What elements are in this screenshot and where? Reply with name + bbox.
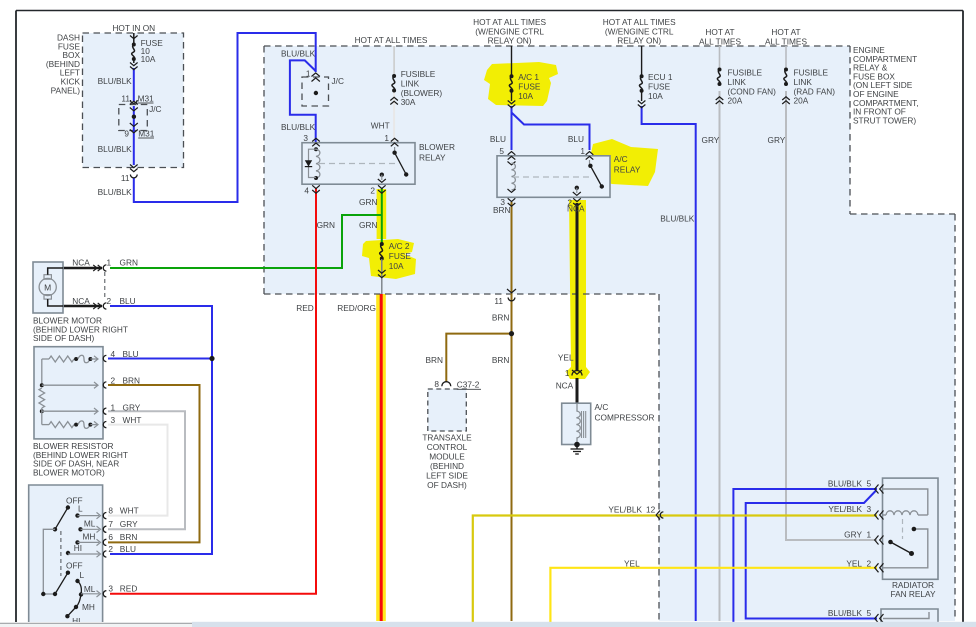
svg-text:J/C: J/C — [332, 76, 344, 86]
svg-text:30A: 30A — [401, 97, 416, 107]
radiator fan relay pin 1 — [875, 536, 884, 545]
svg-text:YEL: YEL — [846, 559, 862, 569]
condenser fan relay pin 5 — [875, 614, 884, 623]
svg-text:2: 2 — [108, 544, 113, 554]
connector 2 motor — [93, 296, 111, 309]
svg-text:3: 3 — [108, 583, 113, 593]
wire gray A/C 2 fuse tail — [381, 261, 383, 294]
svg-text:5: 5 — [867, 608, 872, 618]
svg-text:STRUT TOWER): STRUT TOWER) — [853, 115, 916, 125]
svg-text:BLU: BLU — [120, 296, 136, 306]
svg-text:SIDE OF DASH): SIDE OF DASH) — [33, 333, 95, 343]
svg-text:OFF: OFF — [66, 561, 83, 571]
svg-text:HI: HI — [74, 543, 82, 553]
svg-text:GRY: GRY — [123, 403, 141, 413]
junction connector J/C box (dash fuse box) — [119, 105, 148, 131]
radiator fan relay pin 3 — [875, 511, 884, 520]
highlight on A/C relay label — [591, 139, 658, 186]
svg-text:1: 1 — [107, 258, 112, 268]
label FUSE 10 10A — [141, 38, 164, 64]
svg-text:1: 1 — [580, 146, 585, 156]
label DASH FUSE BOX location — [46, 33, 81, 96]
svg-text:M: M — [44, 283, 51, 293]
blower resistor box — [34, 347, 103, 439]
A/C relay pin 2 — [567, 198, 580, 208]
label ENGINE COMPARTMENT RELAY & FUSE BOX location — [853, 45, 919, 125]
svg-text:NCA: NCA — [72, 296, 90, 306]
svg-text:BLU/BLK: BLU/BLK — [281, 49, 316, 59]
header HOT AT ALL TIMES W/ENGINE CTRL (ECU 1) — [603, 17, 676, 46]
label GRY 1 (rad relay) — [844, 530, 871, 540]
svg-text:FUSE: FUSE — [389, 251, 412, 261]
motor connector dashed link — [104, 272, 106, 300]
svg-text:BLOWER: BLOWER — [419, 142, 455, 152]
label FUSIBLE LINK (RAD FAN) 20A — [794, 68, 836, 106]
svg-text:20A: 20A — [728, 96, 743, 106]
svg-text:YEL/BLK: YEL/BLK — [828, 504, 862, 514]
svg-text:BLU/BLK: BLU/BLK — [98, 76, 133, 86]
svg-text:10A: 10A — [648, 91, 663, 101]
wire BLU blower motor pin 2 to switch pin 2 — [110, 306, 212, 554]
switch 1 contact L — [75, 512, 100, 518]
header HOT AT ALL TIMES (cond fan) — [699, 27, 741, 46]
fuse A/C 1 exit arrow — [508, 91, 516, 108]
svg-text:FUSE: FUSE — [648, 82, 671, 92]
wire WHT blower resistor pin 3 to switch pin 8 — [108, 425, 168, 516]
switch 2 contact ML — [78, 581, 101, 597]
svg-text:M31: M31 — [138, 129, 155, 139]
junction dot BRN branch — [509, 331, 514, 336]
label YEL/BLK 12 — [608, 505, 655, 515]
svg-text:BLOWER MOTOR): BLOWER MOTOR) — [33, 467, 105, 477]
wire NCA blower motor pin 1 lead — [63, 267, 102, 269]
svg-text:11: 11 — [121, 94, 130, 104]
svg-text:ML: ML — [84, 584, 96, 594]
svg-text:3: 3 — [303, 133, 308, 143]
svg-text:BLU/BLK: BLU/BLK — [828, 608, 863, 618]
svg-text:WHT: WHT — [371, 121, 390, 131]
svg-text:GRY: GRY — [702, 135, 720, 145]
svg-text:ML: ML — [84, 519, 96, 529]
svg-text:(BEHIND: (BEHIND — [430, 461, 464, 471]
switch 2 contact HI — [65, 607, 76, 618]
svg-text:4: 4 — [111, 349, 116, 359]
wire BLU/BLK dash fuse box internal (fuse to J/C to exit) — [134, 33, 316, 202]
svg-text:NCA: NCA — [567, 204, 585, 214]
wire BRN A/C relay pin 3 to connector 11 and down — [511, 202, 513, 621]
svg-text:NCA: NCA — [556, 381, 574, 391]
svg-text:BRN: BRN — [425, 355, 443, 365]
fuse FUSE 10 10A arrow — [130, 36, 138, 39]
J/C internal dot (dash box) — [130, 108, 138, 127]
svg-text:BRN: BRN — [493, 205, 511, 215]
connector 1 compressor — [565, 368, 582, 378]
highlight on A/C 1 fuse — [484, 62, 558, 106]
svg-text:RELAY: RELAY — [614, 165, 641, 175]
fuse ECU 1 lead — [641, 46, 643, 78]
engine J/C internal dot — [314, 91, 318, 95]
fuse FUSE 10 10A exit arrows — [130, 63, 138, 70]
svg-text:GRN: GRN — [359, 220, 377, 230]
fusible link blower arrows — [390, 97, 398, 104]
svg-text:ALL TIMES: ALL TIMES — [699, 36, 741, 46]
wire BLU/BLK inner to radiator fan relay pin 5 and condenser fan relay pin 5 — [746, 491, 877, 619]
label FUSIBLE LINK (BLOWER) 30A — [401, 69, 443, 107]
switch common wire — [41, 529, 55, 596]
wire WHT fusible link blower to relay pin 1 — [393, 46, 395, 142]
svg-text:FUSE: FUSE — [518, 82, 541, 92]
label BLU/BLK 5 (rad relay) — [828, 478, 872, 488]
svg-text:L: L — [78, 504, 83, 514]
label ECU 1 FUSE 10A — [648, 72, 673, 101]
blower relay diode — [305, 149, 316, 177]
wire BLU/BLK outer to radiator fan relay pin 5 — [733, 489, 877, 627]
svg-text:BRN: BRN — [120, 532, 138, 542]
svg-text:GRY: GRY — [844, 530, 862, 540]
highlight band RED/ORG wire — [376, 294, 386, 621]
svg-text:11: 11 — [494, 296, 503, 306]
fusible link cond fan symbol — [717, 68, 721, 87]
resistor pin 1 — [103, 403, 141, 415]
blower relay internal dashed link — [319, 163, 398, 165]
label YEL 2 (rad relay) — [846, 559, 871, 569]
label A/C RELAY — [614, 154, 641, 175]
radiator fan relay coil — [883, 489, 928, 515]
fuse FUSE 10 10A symbol — [132, 43, 136, 62]
switch 2 contact MH — [74, 595, 81, 610]
fuse A/C 1 lead — [511, 46, 513, 78]
highlight on NCA wire (A/C relay to compressor) — [566, 200, 590, 379]
svg-text:COMPRESSOR: COMPRESSOR — [595, 413, 655, 423]
switch pin 2 — [103, 544, 136, 557]
header HOT AT ALL TIMES W/ENGINE CTRL (A/C 1) — [473, 17, 546, 46]
svg-text:WHT: WHT — [123, 415, 142, 425]
label BLU/BLK 5 (cond relay) — [828, 608, 872, 618]
blower relay coil — [314, 147, 320, 180]
connector C37-2 pin 8 — [434, 379, 481, 390]
svg-text:GRN: GRN — [317, 220, 335, 230]
blower relay pin 1 — [384, 133, 398, 146]
resistor pin 2 — [103, 375, 140, 388]
label A/C COMPRESSOR — [595, 402, 655, 423]
switch pin 6 — [103, 532, 137, 546]
switch 1 contact HI — [66, 551, 101, 557]
connector 9 M31 — [130, 130, 138, 133]
svg-text:RELAY: RELAY — [419, 153, 446, 163]
svg-text:HOT AT ALL TIMES: HOT AT ALL TIMES — [355, 35, 428, 45]
label A/C 1 FUSE 10A — [518, 72, 541, 101]
svg-text:2: 2 — [370, 186, 375, 196]
label YEL/BLK 3 (rad relay) — [828, 504, 871, 514]
svg-text:2: 2 — [111, 375, 116, 385]
wire GRN branch to blower motor pin 1 — [110, 215, 382, 268]
wire GRY rad fan fusible link to relay pin 1 — [786, 91, 877, 540]
wire BLU branch to A/C relay pin 1 — [512, 113, 590, 151]
blower relay pin 2 — [370, 185, 385, 195]
svg-text:1: 1 — [111, 403, 116, 413]
svg-text:BLU/BLK: BLU/BLK — [98, 187, 133, 197]
svg-text:5: 5 — [867, 478, 872, 488]
svg-text:GRN: GRN — [359, 197, 377, 207]
label BLOWER RELAY — [419, 142, 455, 163]
fusible link rad fan lead — [785, 46, 787, 70]
svg-text:TRANSAXLE: TRANSAXLE — [422, 433, 472, 443]
label RADIATOR FAN RELAY — [890, 580, 935, 599]
svg-text:20A: 20A — [794, 96, 809, 106]
wire BLU A/C 1 fuse to A/C relay pin 5 — [511, 106, 513, 150]
wire BLU/BLK from J/C to blower relay pin 3 — [290, 60, 316, 142]
header HOT AT ALL TIMES (rad fan) — [765, 27, 807, 46]
highlight on A/C 2 fuse — [362, 239, 416, 279]
svg-text:1: 1 — [306, 69, 311, 79]
svg-text:8: 8 — [108, 505, 113, 515]
label TRANSAXLE CONTROL MODULE — [422, 433, 472, 491]
svg-text:7: 7 — [108, 519, 113, 529]
wire YEL/BLK to radiator fan relay pin 3 — [473, 516, 877, 627]
svg-text:RED: RED — [296, 303, 314, 313]
blower relay pin 3 — [303, 133, 319, 146]
svg-text:ECU 1: ECU 1 — [648, 72, 673, 82]
A/C compressor box — [562, 403, 591, 444]
dash fuse box fill — [83, 33, 184, 168]
wire NCA blower motor pin 2 lead — [63, 305, 102, 307]
wire BLU blower resistor pin 4 — [108, 358, 212, 360]
svg-text:YEL: YEL — [624, 559, 640, 569]
engine compartment relay & fuse box region fill — [264, 46, 955, 621]
svg-text:GRN: GRN — [120, 258, 138, 268]
switch 1 contact ML — [78, 526, 100, 532]
svg-text:5: 5 — [499, 146, 504, 156]
fuse FUSE 10 10A tail — [133, 61, 135, 64]
svg-text:A/C: A/C — [614, 154, 628, 164]
radiator fan relay dashed link — [902, 519, 904, 539]
A/C relay pin 5 — [499, 146, 515, 160]
svg-text:A/C: A/C — [595, 402, 609, 412]
svg-text:GRY: GRY — [120, 519, 138, 529]
svg-text:PANEL): PANEL) — [51, 85, 81, 95]
svg-text:RELAY ON): RELAY ON) — [488, 36, 532, 46]
fusible link rad fan arrows — [782, 97, 790, 104]
connector 1 engine J/C — [306, 69, 320, 82]
svg-text:BLU/BLK: BLU/BLK — [828, 478, 863, 488]
svg-text:BRN: BRN — [492, 313, 510, 323]
svg-text:OF DASH): OF DASH) — [427, 480, 467, 490]
svg-text:12: 12 — [646, 505, 656, 515]
resistor pin 3 — [103, 415, 141, 428]
svg-text:MH: MH — [83, 532, 96, 542]
blower motor symbol — [39, 268, 63, 306]
A/C compressor coil — [576, 404, 585, 445]
dash box exit arrow — [130, 165, 138, 172]
blower motor box — [33, 262, 63, 313]
svg-text:2: 2 — [107, 296, 112, 306]
svg-text:RELAY ON): RELAY ON) — [617, 36, 661, 46]
fuse A/C 1 symbol — [509, 74, 513, 93]
switch 1 contact MH — [75, 539, 100, 545]
blower switch box — [29, 485, 103, 627]
fuse FUSE 10 10A (dash fuse box) lead — [133, 33, 135, 43]
fusible link cond fan lead — [719, 46, 721, 70]
blower relay switch — [378, 147, 409, 182]
svg-text:J/C: J/C — [149, 104, 161, 114]
label FUSIBLE LINK (COND FAN) 20A — [728, 68, 777, 106]
engine compartment box dashed edges — [264, 46, 955, 621]
connector 12 on YEL/BLK wire — [656, 511, 663, 520]
svg-text:NCA: NCA — [72, 258, 90, 268]
blower relay pin 4 — [304, 185, 319, 195]
wire BRN blower resistor pin 2 to switch pin 6 — [108, 385, 200, 542]
wire YEL to radiator fan relay pin 2 — [550, 568, 877, 627]
svg-text:BLU: BLU — [490, 134, 506, 144]
radiator fan relay pin 2 — [875, 563, 884, 572]
radiator fan relay pin 5 — [875, 485, 884, 494]
resistor pin 4 — [103, 349, 138, 362]
switch 2 contact L — [75, 579, 79, 583]
radiator fan relay switch — [883, 527, 928, 568]
junction dot BLU resistor/motor — [209, 356, 214, 361]
svg-text:8: 8 — [434, 379, 439, 389]
svg-text:CONTROL: CONTROL — [427, 442, 468, 452]
svg-text:ALL TIMES: ALL TIMES — [765, 36, 807, 46]
svg-text:A/C 1: A/C 1 — [518, 72, 539, 82]
svg-text:MODULE: MODULE — [429, 452, 465, 462]
A/C relay pin 3 — [500, 197, 515, 207]
svg-text:10A: 10A — [518, 91, 533, 101]
fuse ECU 1 exit arrow — [638, 91, 646, 108]
svg-text:YEL/BLK: YEL/BLK — [608, 505, 642, 515]
fusible link rad fan symbol — [784, 68, 788, 87]
condenser fan relay internal wire — [883, 612, 929, 619]
wire NCA compressor lead — [576, 378, 579, 404]
svg-text:2: 2 — [867, 559, 872, 569]
radiator fan relay box — [883, 478, 939, 579]
blower relay box — [302, 143, 415, 185]
label BLOWER MOTOR — [33, 316, 128, 344]
A/C relay box — [497, 156, 610, 198]
label 11 M31 — [121, 94, 154, 104]
svg-text:1: 1 — [384, 133, 389, 143]
blower switch wiper 2 — [53, 571, 70, 597]
label 9 M31 — [124, 129, 154, 139]
svg-text:BLU: BLU — [568, 134, 584, 144]
svg-text:3: 3 — [867, 504, 872, 514]
svg-text:WHT: WHT — [120, 505, 139, 515]
fusible link cond fan arrows — [716, 97, 724, 104]
svg-text:BLU: BLU — [123, 349, 139, 359]
transaxle control module dashed box — [428, 389, 467, 431]
connector 11 below dash box — [121, 173, 137, 183]
wire NCA A/C relay pin 2 to compressor — [576, 203, 579, 370]
wire BLU/BLK ECU 1 fuse down right side — [642, 106, 696, 621]
svg-text:C37-2: C37-2 — [457, 380, 480, 390]
svg-text:BLU/BLK: BLU/BLK — [98, 144, 133, 154]
junction connector J/C box (engine box) — [302, 77, 329, 106]
fuse A/C 2 symbol — [380, 242, 384, 261]
svg-text:BLU: BLU — [120, 544, 136, 554]
svg-text:BLU/BLK: BLU/BLK — [660, 214, 695, 224]
label BLOWER RESISTOR — [33, 441, 128, 477]
svg-text:YEL: YEL — [558, 353, 574, 363]
svg-text:6: 6 — [108, 532, 113, 542]
svg-text:BRN: BRN — [492, 355, 510, 365]
switch mechanical dashed link — [60, 531, 62, 576]
switch pin 3 — [103, 583, 137, 597]
svg-text:MH: MH — [82, 602, 95, 612]
svg-text:FAN RELAY: FAN RELAY — [890, 589, 935, 599]
switch pin 8 — [103, 505, 138, 518]
connector 1 motor — [93, 258, 111, 272]
svg-text:1: 1 — [565, 368, 570, 378]
fusible link blower symbol — [392, 74, 396, 93]
svg-text:GRY: GRY — [768, 135, 786, 145]
svg-text:11: 11 — [121, 173, 130, 183]
wire RED blower relay pin 4 to blower switch pin 3 — [110, 188, 316, 594]
highlight on GRN wire below blower relay pin 2 — [377, 189, 387, 239]
svg-text:10A: 10A — [141, 54, 156, 64]
svg-text:10A: 10A — [389, 261, 404, 271]
connector 11 M31 — [130, 100, 138, 105]
wire GRN blower relay pin 2 to A/C 2 fuse — [381, 188, 383, 244]
bottom scrollbar band — [0, 622, 976, 627]
fuse A/C 2 exit arrow — [378, 259, 386, 278]
svg-text:3: 3 — [111, 415, 116, 425]
wire BRN branch to TCM C37-2 pin 8 — [446, 334, 511, 382]
svg-text:4: 4 — [304, 186, 309, 196]
wire GRY blower resistor pin 1 to switch pin 7 — [108, 411, 185, 529]
svg-text:1: 1 — [867, 530, 872, 540]
ground (compressor) — [571, 442, 584, 454]
svg-text:RED: RED — [120, 583, 138, 593]
resistor network — [39, 355, 98, 428]
dash fuse box (dashed outline) — [83, 33, 184, 168]
wire RED/ORG core — [380, 294, 383, 621]
label A/C 2 FUSE 10A — [389, 241, 412, 271]
blower switch wiper 1 — [53, 505, 70, 531]
svg-text:RED/ORG: RED/ORG — [337, 303, 376, 313]
A/C relay coil — [508, 162, 516, 193]
switch pin 7 — [103, 519, 138, 533]
A/C relay switch — [573, 160, 604, 195]
fuse ECU 1 symbol — [639, 74, 643, 93]
svg-text:L: L — [80, 570, 85, 580]
svg-text:M31: M31 — [138, 94, 155, 104]
svg-text:LEFT SIDE: LEFT SIDE — [426, 471, 468, 481]
svg-text:HOT IN ON: HOT IN ON — [112, 23, 155, 33]
wire GRY cond fan fusible link down — [719, 91, 721, 621]
condenser fan relay box (partial) — [881, 609, 938, 627]
svg-text:9: 9 — [124, 129, 129, 139]
connector 11 on BRN wire — [494, 289, 516, 306]
svg-text:BRN: BRN — [123, 375, 141, 385]
A/C relay pin 1 — [580, 146, 593, 160]
A/C relay internal dashed link — [513, 176, 590, 178]
svg-text:A/C 2: A/C 2 — [389, 241, 410, 251]
svg-text:BLU/BLK: BLU/BLK — [281, 122, 316, 132]
